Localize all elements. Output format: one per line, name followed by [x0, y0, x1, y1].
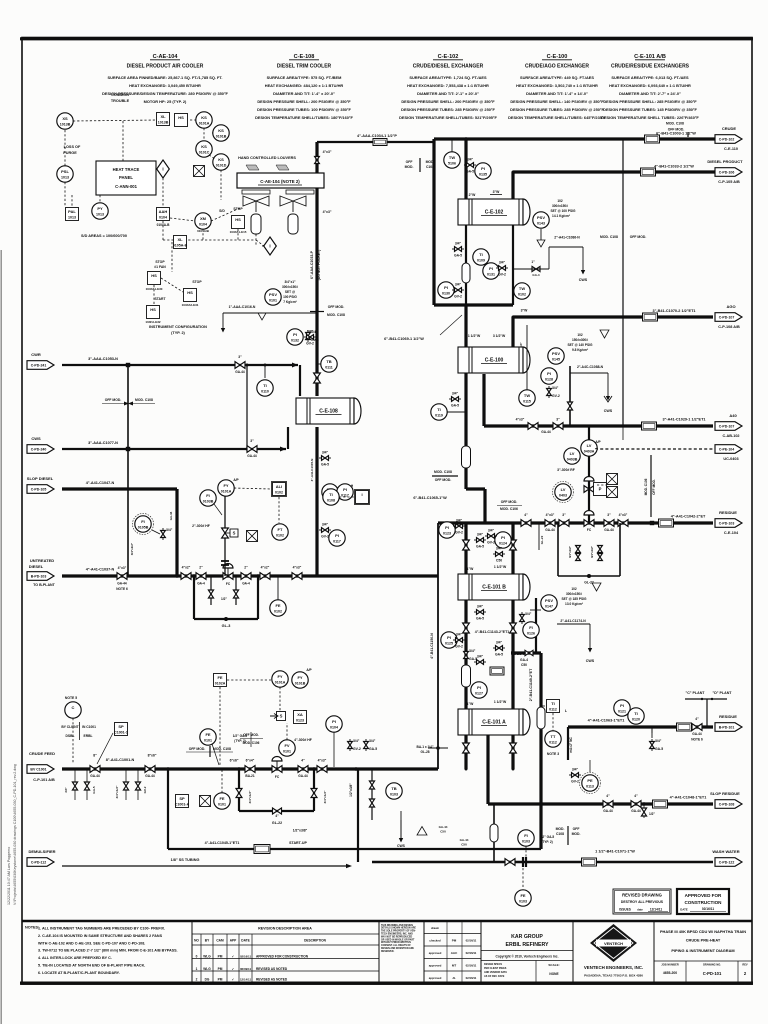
svg-text:PI: PI [343, 487, 347, 492]
svg-text:C-E-110: C-E-110 [724, 147, 738, 151]
svg-text:GA-44: GA-44 [175, 525, 179, 534]
svg-text:FE: FE [205, 732, 210, 737]
svg-text:"D" PLANT: "D" PLANT [713, 691, 733, 695]
svg-text:0126: 0126 [527, 632, 535, 636]
svg-text:PM: PM [452, 939, 457, 943]
client tie-in note [61, 696, 96, 764]
svg-text:AAC: AAC [451, 951, 458, 955]
svg-text:REVISED DRAWING: REVISED DRAWING [622, 893, 662, 898]
PSV-0147 with set pressure note [530, 583, 601, 663]
svg-text:HS: HS [235, 217, 241, 222]
svg-text:DESIGN PRESSURE SHELL: 200 PSI: DESIGN PRESSURE SHELL: 200 PSIG/RV @ 350… [257, 99, 351, 104]
svg-text:TI: TI [263, 383, 267, 388]
svg-text:PIPING & INSTRUMENT DIAGRAM: PIPING & INSTRUMENT DIAGRAM [671, 948, 734, 953]
svg-text:3/4": 3/4" [469, 649, 476, 653]
pipe AGO line 3"-B41-C1070 [512, 309, 714, 321]
svg-text:P: P [599, 487, 602, 492]
svg-text:TW: TW [519, 286, 525, 291]
svg-text:0104A/B: 0104A/B [197, 229, 210, 233]
svg-text:NOTE 3: NOTE 3 [547, 752, 559, 756]
svg-text:PI: PI [481, 166, 485, 171]
svg-text:0115: 0115 [523, 400, 531, 404]
svg-text:0102: 0102 [518, 293, 526, 297]
pipe residue outlet 4"-A41-C1063 [568, 719, 713, 732]
drain stubs under slop residue junction [641, 804, 655, 818]
svg-text:B-PD-103: B-PD-103 [31, 574, 47, 578]
flow indicator FI-0103B [200, 490, 222, 515]
svg-text:FE: FE [275, 603, 280, 608]
svg-text:DESIGN PRESSURE SHELL: 200 PSI: DESIGN PRESSURE SHELL: 200 PSIG/RV @ 350… [401, 99, 495, 104]
svg-text:GL-3: GL-3 [222, 624, 231, 628]
svg-text:3/4": 3/4" [322, 523, 329, 527]
nozzle labels C-E-102 [469, 190, 502, 197]
svg-text:TI: TI [437, 407, 441, 412]
svg-text:DIESEL TRIM COOLER: DIESEL TRIM COOLER [277, 64, 332, 70]
svg-text:C108: C108 [556, 832, 564, 836]
svg-text:SP: SP [179, 796, 185, 801]
svg-text:TW: TW [449, 155, 455, 160]
svg-text:WLG: WLG [203, 967, 211, 971]
svg-text:0403B: 0403B [567, 458, 578, 462]
svg-text:B-PD-101: B-PD-101 [719, 725, 735, 729]
svg-text:A/P: A/P [233, 478, 239, 482]
svg-text:3/4"x1/2": 3/4"x1/2" [590, 545, 594, 558]
svg-text:PM: PM [218, 955, 223, 959]
riser below C-E-102 x513 [512, 223, 514, 305]
pipe diesel product line 4"-B41-C1033 [513, 165, 718, 177]
pipe crude product line 6"-B41-C1003 [434, 132, 718, 144]
svg-text:3/4": 3/4" [64, 787, 68, 793]
svg-text:DIESEL: DIESEL [29, 564, 44, 569]
pressure gauge PI-0132 [287, 329, 316, 346]
svg-text:ERBIL REFINERY: ERBIL REFINERY [506, 942, 549, 948]
svg-text:4"-A41-C1048-1"ET1: 4"-A41-C1048-1"ET1 [670, 796, 707, 800]
svg-text:SCALE:: SCALE: [548, 963, 559, 967]
battery limit line x623 [622, 139, 624, 426]
svg-text:C-PD-240: C-PD-240 [31, 447, 47, 451]
svg-text:FI: FI [529, 625, 533, 630]
svg-text:FC: FC [587, 528, 592, 532]
pipe air cooler inlet 4"-AAA-C1034 [317, 134, 434, 146]
vertical drop from AGO2 line [622, 426, 624, 440]
svg-text:DIAMETER AND T/T: 1'-4" x 14'-: DIAMETER AND T/T: 1'-4" x 14'-0" [526, 91, 588, 96]
svg-text:CRUDE PRE-HEAT: CRUDE PRE-HEAT [686, 938, 721, 943]
svg-text:0101: 0101 [269, 299, 277, 303]
vent to CWS at C-E-100 [570, 365, 613, 413]
svg-text:0103: 0103 [390, 793, 398, 797]
capsule riser slop residue drain [490, 804, 498, 862]
svg-text:2"-A41-C1086-N: 2"-A41-C1086-N [554, 236, 580, 240]
svg-text:1013B: 1013B [158, 121, 169, 125]
svg-text:MOD. C108: MOD. C108 [327, 313, 345, 317]
air cooler C-AE-104 [237, 156, 324, 194]
svg-text:HEAT EXCHANGED: 3,049,450 BTU/: HEAT EXCHANGED: 3,049,450 BTU/HR [129, 83, 201, 88]
svg-text:C50: C50 [521, 663, 527, 667]
svg-text:PER CLIENT DWGS: PER CLIENT DWGS [484, 967, 507, 970]
svg-text:300#x150#: 300#x150# [552, 204, 568, 208]
svg-text:CRUDE/RESIDUE EXCHANGERS: CRUDE/RESIDUE EXCHANGERS [611, 64, 690, 70]
svg-text:HEAT TRACE: HEAT TRACE [113, 167, 140, 172]
svg-text:02/16/11: 02/16/11 [466, 964, 477, 968]
svg-text:GA-4: GA-4 [242, 582, 250, 586]
svg-text:1/2"x3/8": 1/2"x3/8" [293, 829, 308, 833]
svg-text:JOB NUMBER: JOB NUMBER [661, 963, 679, 967]
svg-text:1. ALL INSTRUMENT TAG NUMBERS: 1. ALL INSTRUMENT TAG NUMBERS ARE PRECED… [38, 927, 165, 931]
svg-text:HEAT EXCHANGED: 6,093,640 x 1:: HEAT EXCHANGED: 6,093,640 x 1:1 BTU/HR [609, 83, 691, 88]
svg-text:PANEL: PANEL [119, 175, 133, 180]
slop residue riser x488 [486, 733, 489, 804]
svg-text:FY: FY [277, 674, 282, 679]
svg-text:1013: 1013 [96, 213, 104, 217]
svg-text:APP: APP [230, 939, 237, 943]
relay circle PY [92, 195, 108, 219]
svg-text:PI: PI [501, 535, 505, 540]
svg-text:3/4": 3/4" [477, 605, 484, 609]
svg-text:3/4": 3/4" [655, 739, 662, 743]
svg-text:12/14/11: 12/14/11 [240, 978, 251, 982]
heat trace panel C-ANN-001 [96, 121, 156, 195]
svg-text:0104: 0104 [199, 223, 207, 227]
svg-text:4"x3": 4"x3" [293, 566, 302, 570]
svg-text:150#x300#: 150#x300# [572, 338, 588, 342]
flow transmitter FT-0102 [272, 524, 288, 540]
svg-text:C-P-105 A/B: C-P-105 A/B [718, 180, 740, 184]
svg-text:DATE: DATE [680, 908, 688, 912]
approved for construction stamp [677, 889, 729, 914]
notes block [25, 926, 178, 975]
svg-text:0102: 0102 [275, 491, 283, 495]
stub under residue line 652 [651, 727, 653, 733]
svg-text:C-P-108 A/B: C-P-108 A/B [718, 325, 740, 329]
svg-text:FE: FE [217, 675, 222, 680]
svg-text:DIESEL PRODUCT AIR COOLER: DIESEL PRODUCT AIR COOLER [127, 64, 204, 70]
svg-text:C1001-A: C1001-A [175, 803, 190, 807]
crude feed metering cluster FE-0101 [200, 668, 313, 765]
svg-text:TECH ENGINEERS, INC. AND: TECH ENGINEERS, INC. AND [381, 933, 413, 936]
pressure gauge PI-0128 [541, 368, 560, 398]
svg-text:APPROVED FOR CONSTRUCTION: APPROVED FOR CONSTRUCTION [256, 955, 309, 959]
svg-text:LV: LV [561, 487, 566, 492]
svg-text:0131: 0131 [487, 273, 495, 277]
svg-text:4"-A41-C1042-2"ET: 4"-A41-C1042-2"ET [671, 515, 706, 519]
svg-text:LV: LV [587, 443, 592, 448]
svg-text:FI: FI [206, 493, 210, 498]
svg-text:KS: KS [218, 128, 224, 133]
svg-text:TI: TI [479, 252, 483, 257]
svg-text:TB: TB [391, 786, 396, 791]
svg-text:MOD.: MOD. [405, 165, 414, 169]
svg-text:3/4": 3/4" [525, 612, 532, 616]
equipment header C-E-101 A/B [601, 54, 699, 120]
svg-text:TO B-PLANT: TO B-PLANT [33, 583, 55, 587]
residue line corner x568 [568, 727, 573, 760]
svg-text:0101D: 0101D [216, 164, 227, 168]
svg-text:TT: TT [551, 734, 556, 739]
pipe crude feed 8"-A41-C1001 [62, 754, 438, 771]
svg-text:4"x3": 4"x3" [546, 513, 555, 517]
C-E-101A outlet risers [465, 735, 515, 771]
air cooler surge drum B [288, 214, 298, 234]
svg-text:C-E-102: C-E-102 [485, 210, 504, 216]
svg-text:C-E-101 A/B: C-E-101 A/B [634, 54, 666, 60]
svg-text:TW: TW [524, 393, 530, 398]
svg-text:DESIGN AND INVENTION ARE: DESIGN AND INVENTION ARE [381, 947, 414, 950]
svg-text:HEAT EXCHANGED: 7,553,438 x 1:: HEAT EXCHANGED: 7,553,438 x 1:1 BTU/HR [407, 83, 489, 88]
svg-text:GA-44: GA-44 [439, 825, 448, 829]
svg-text:AND VENDOR DATA: AND VENDOR DATA [484, 971, 507, 974]
nozzle labels C-E-100 [468, 334, 506, 338]
valves on AGO line start [521, 309, 528, 313]
C-E-101 interconnect risers [462, 598, 514, 711]
svg-text:STOP: STOP [192, 280, 202, 284]
svg-text:4. ALL INTER-LOCK ARE PREFIXE: 4. ALL INTER-LOCK ARE PREFIXED BY C. [38, 956, 112, 960]
svg-text:V:\Projects\4655\030Keystone\4: V:\Projects\4655\030Keystone\4655-030 dr… [13, 764, 17, 905]
svg-text:GA-44: GA-44 [541, 430, 551, 434]
pipe untreated diesel 4"-A41-C1037 [62, 568, 438, 577]
revision table [192, 927, 379, 984]
svg-text:SURFACE AREA/TYPE: 449 SQ. FT.: SURFACE AREA/TYPE: 449 SQ. FT./AES [520, 75, 594, 80]
svg-text:DESIGN PRESSURE TUBES: 285 PSI: DESIGN PRESSURE TUBES: 285 PSIG/RV @ 250… [401, 107, 495, 112]
scope break metering [240, 732, 263, 747]
scope break wash water [556, 826, 581, 845]
svg-text:AAH: AAH [159, 209, 168, 214]
svg-text:GA-44: GA-44 [235, 370, 245, 374]
svg-text:PI: PI [477, 685, 481, 690]
svg-text:OFF MOD.: OFF MOD. [652, 479, 656, 495]
svg-text:3/4": 3/4" [496, 641, 503, 645]
svg-text:GV-2: GV-2 [571, 780, 579, 784]
svg-text:C108: C108 [426, 165, 434, 169]
svg-text:4"x2": 4"x2" [182, 566, 191, 570]
trim cooler control valve station x225 [192, 496, 238, 576]
svg-text:NOTE 6: NOTE 6 [691, 738, 703, 742]
svg-text:C-E-100: C-E-100 [485, 358, 504, 364]
svg-text:approved: approved [429, 951, 442, 955]
svg-text:6"-B41-C1069-1 1/2"W: 6"-B41-C1069-1 1/2"W [384, 337, 424, 341]
svg-text:CAM: CAM [216, 939, 224, 943]
svg-text:BV C1001: BV C1001 [30, 767, 46, 771]
svg-text:DIAMETER AND T/T: 1'-4" x 20'-: DIAMETER AND T/T: 1'-4" x 20'-0" [273, 91, 335, 96]
equipment header C-E-102 [399, 54, 497, 120]
control valve FV on diesel line [223, 564, 233, 587]
svg-text:3"W: 3"W [493, 190, 500, 194]
svg-text:PSV: PSV [269, 292, 277, 297]
svg-text:OFF MOD.: OFF MOD. [328, 305, 345, 309]
thermowell TW-0115 [519, 325, 535, 406]
svg-text:CWS: CWS [586, 659, 595, 663]
svg-text:9.8 Kg/cm²: 9.8 Kg/cm² [572, 348, 588, 352]
svg-text:ALI: ALI [276, 484, 282, 489]
svg-text:S/D: S/D [219, 209, 225, 213]
svg-text:4"-A41-C1045-1"ET1: 4"-A41-C1045-1"ET1 [205, 841, 240, 845]
svg-text:IN C1001: IN C1001 [82, 725, 96, 729]
svg-text:TB: TB [326, 359, 331, 364]
svg-text:C-PD-102: C-PD-102 [719, 137, 735, 141]
svg-text:INSTRUMENT CONFIGURATION: INSTRUMENT CONFIGURATION [149, 325, 207, 329]
svg-text:0121: 0121 [618, 710, 626, 714]
pipe demulsifier line [27, 849, 56, 866]
svg-text:GA-44: GA-44 [145, 774, 155, 778]
svg-text:TROUBLE: TROUBLE [111, 99, 130, 103]
svg-text:PI: PI [332, 719, 336, 724]
svg-text:3/4"x1/2": 3/4"x1/2" [568, 545, 572, 558]
orifice run trio below crude line [175, 769, 230, 809]
svg-text:C-AB-102: C-AB-102 [722, 434, 739, 438]
svg-text:2"-A4C-C1088-N: 2"-A4C-C1088-N [577, 365, 604, 369]
svg-text:GA-5: GA-5 [321, 463, 329, 467]
svg-text:DEMULSIFIER: DEMULSIFIER [28, 849, 55, 854]
hand switch XL 0105 [173, 236, 188, 249]
svg-text:0135: 0135 [479, 173, 487, 177]
svg-text:OFF: OFF [406, 160, 413, 164]
svg-text:GL-28: GL-28 [420, 750, 429, 754]
svg-text:DESIGN PRESSURE TUBES: 285 PSI: DESIGN PRESSURE TUBES: 285 PSIG/RV @ 250… [510, 107, 604, 112]
svg-text:MOD. C108: MOD. C108 [213, 747, 231, 751]
scope break CWR riser [102, 398, 155, 406]
svg-text:3/4": 3/4" [307, 330, 314, 334]
trunk gauges PI-0117 [310, 459, 345, 547]
svg-text:DETAILS SHOWN HEREON ARE: DETAILS SHOWN HEREON ARE [381, 927, 416, 930]
svg-text:"C" PLANT: "C" PLANT [686, 691, 706, 695]
seal pot PE-0113 [569, 760, 601, 794]
svg-text:FC: FC [226, 582, 231, 586]
svg-text:GV-2: GV-2 [498, 273, 506, 277]
nozzle labels C-E-101B [467, 565, 507, 571]
pressure gauge PI-0123 [439, 519, 465, 539]
svg-text:TI: TI [329, 492, 333, 497]
svg-text:CWS: CWS [397, 844, 406, 848]
svg-text:A40: A40 [729, 413, 737, 418]
svg-text:C-E-102: C-E-102 [438, 54, 459, 60]
svg-text:C50: C50 [461, 843, 467, 847]
svg-text:KS: KS [218, 157, 224, 162]
svg-text:(DO NOT POCKET): (DO NOT POCKET) [317, 250, 321, 281]
svg-text:3": 3" [556, 418, 560, 422]
instrument riser dashes LV [595, 448, 597, 449]
svg-text:SLOP DIESEL: SLOP DIESEL [27, 476, 54, 481]
svg-text:OFF MOD.: OFF MOD. [105, 398, 122, 402]
svg-text:1"W: 1"W [467, 567, 474, 571]
flag SLOP RESIDUE C-PD-108 [710, 791, 742, 808]
svg-text:3/4": 3/4" [369, 739, 376, 743]
svg-text:0102A: 0102A [215, 682, 226, 686]
svg-text:GA-4: GA-4 [520, 658, 528, 662]
svg-text:HEAT EXCHANGED: 484,120 x 1:1: HEAT EXCHANGED: 484,120 x 1:1 BTU/HR [265, 83, 344, 88]
svg-text:0123: 0123 [443, 532, 451, 536]
svg-text:1/8" SS TUBING: 1/8" SS TUBING [171, 858, 200, 862]
svg-text:HS: HS [178, 115, 184, 120]
svg-text:104FA2-E31: 104FA2-E31 [182, 303, 199, 307]
svg-text:APPROVED FOR: APPROVED FOR [685, 893, 722, 898]
svg-text:14.1 Kg/cm²: 14.1 Kg/cm² [552, 214, 570, 218]
C-E-108 CW risers [247, 365, 300, 449]
svg-text:3": 3" [607, 513, 611, 517]
svg-text:3/4": 3/4" [488, 529, 495, 533]
svg-text:3": 3" [238, 355, 242, 359]
svg-text:REV: REV [742, 963, 748, 967]
title block outline [22, 921, 752, 983]
svg-text:4"-A41-C1035-N: 4"-A41-C1035-N [310, 459, 314, 482]
svg-text:4"-B41-C1143-2"ET1: 4"-B41-C1143-2"ET1 [475, 630, 510, 634]
svg-text:0145: 0145 [552, 358, 560, 362]
gauge pair on residue outlet [614, 700, 663, 751]
svg-text:2"-300# HF: 2"-300# HF [192, 524, 210, 528]
svg-text:SURFACE AREA/TYPE: 6,013 SQ. F: SURFACE AREA/TYPE: 6,013 SQ. FT./AES [611, 75, 689, 80]
svg-text:AS OF REV. DATE: AS OF REV. DATE [484, 975, 505, 978]
svg-text:UC-0403: UC-0403 [723, 457, 738, 461]
svg-text:3/4": 3/4" [455, 242, 462, 246]
svg-text:0127: 0127 [475, 692, 483, 696]
svg-text:GA-44: GA-44 [117, 582, 127, 586]
svg-text:PY: PY [97, 206, 103, 211]
svg-text:GV-2: GV-2 [321, 535, 329, 539]
svg-text:PAL: PAL [68, 209, 76, 214]
svg-text:3/4": 3/4" [322, 451, 329, 455]
vertical valves interconnect [314, 373, 533, 753]
svg-text:SET @ 100 PSIG: SET @ 100 PSIG [551, 209, 576, 213]
crude feed GL-22 drain loop [236, 767, 327, 825]
flow recorder FI-0105 [130, 511, 179, 555]
svg-text:DESTROY ALL PREVIOUS: DESTROY ALL PREVIOUS [621, 900, 664, 904]
svg-text:OFF MOD.: OFF MOD. [435, 478, 452, 482]
pipe AGO return 3"-A41-C1029 [484, 374, 713, 430]
svg-text:3. TW-0712 TO BE PLACED 2'-7: 3. TW-0712 TO BE PLACED 2'-7 1/2" (800 m… [38, 949, 178, 953]
vent to CWS at C-E-102 [513, 236, 588, 283]
svg-text:4"-AAA-C1034-1 1/2"P: 4"-AAA-C1034-1 1/2"P [357, 134, 397, 138]
svg-text:4"x3": 4"x3" [516, 418, 525, 422]
pressure gauge PI-0127 [471, 652, 528, 698]
svg-text:S/D AREAS = 100/600/700: S/D AREAS = 100/600/700 [81, 234, 127, 238]
svg-text:DIAMETER AND T/T: 2'-1" x 20'-: DIAMETER AND T/T: 2'-1" x 20'-0" [417, 91, 479, 96]
svg-text:GV-2: GV-2 [454, 295, 462, 299]
svg-text:4"-A41-C1063-1"ET1: 4"-A41-C1063-1"ET1 [588, 719, 625, 723]
pressure gauges near C-E-108 [257, 356, 337, 396]
svg-text:HAND CONTROLLED LOUVERS: HAND CONTROLLED LOUVERS [238, 156, 296, 160]
svg-text:3"W: 3"W [521, 309, 528, 313]
svg-text:FY: FY [223, 483, 228, 488]
svg-text:CWR: CWR [31, 352, 41, 357]
air cooler fan B [280, 196, 306, 212]
svg-text:4"-300# HF: 4"-300# HF [294, 738, 312, 742]
svg-text:PI: PI [293, 332, 297, 337]
pipe slop residue 4"-A41-C1048 [488, 796, 713, 809]
svg-text:GA-44: GA-44 [298, 774, 308, 778]
svg-text:102: 102 [571, 587, 577, 591]
svg-text:GA-4: GA-4 [532, 273, 539, 277]
svg-text:RESIDUE: RESIDUE [719, 714, 737, 719]
svg-text:2 1/2"W: 2 1/2"W [514, 652, 527, 656]
svg-text:(TYP. 2): (TYP. 2) [171, 331, 185, 335]
svg-text:0: 0 [196, 955, 198, 959]
scope break near C-E-100 [432, 470, 458, 482]
svg-text:SURFACE AREA/TYPE: 575 SQ. FT.: SURFACE AREA/TYPE: 575 SQ. FT./BEM [267, 75, 342, 80]
Ventech diamond logo [584, 924, 643, 978]
flag CRUDE FEED BV C1001 [27, 751, 55, 782]
svg-text:1 1/2"-B41-C1071-1"W: 1 1/2"-B41-C1071-1"W [595, 850, 635, 854]
svg-text:SURFACE AREA FINNED/BARE: 25,8: SURFACE AREA FINNED/BARE: 25,867.1 SQ. F… [108, 75, 223, 80]
air cooler outlet header x317 [310, 142, 331, 576]
svg-text:REVISION DESCRIPTION AREA: REVISION DESCRIPTION AREA [258, 927, 312, 931]
svg-text:102: 102 [557, 199, 563, 203]
svg-text:GA-5: GA-5 [451, 404, 459, 408]
svg-text:C-PD-241: C-PD-241 [31, 363, 47, 367]
svg-text:C-PD-107: C-PD-107 [719, 424, 735, 428]
svg-text:0147: 0147 [545, 605, 553, 609]
svg-text:0101B: 0101B [216, 135, 227, 139]
svg-text:8"x6": 8"x6" [148, 754, 157, 758]
svg-text:C-AE-104: C-AE-104 [153, 54, 179, 60]
level valve LV-0403 station [553, 440, 607, 503]
